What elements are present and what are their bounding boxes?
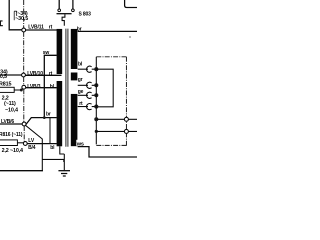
- svg-text:S 803: S 803: [79, 12, 92, 18]
- resistor R815 label: [0, 81, 11, 87]
- svg-text:R815: R815: [0, 81, 11, 87]
- transformer core: [66, 29, 68, 147]
- node LVB/10: [22, 71, 53, 77]
- wire left edge bottom: [0, 170, 43, 172]
- wire br tap from LVB/6: [26, 118, 57, 125]
- switch S803 actuator zigzag: [62, 14, 65, 26]
- connector circle 131: [124, 129, 128, 133]
- junction br/sw: [43, 116, 46, 119]
- component box corner top right: [125, 0, 137, 8]
- chain line right: [125, 57, 127, 146]
- svg-text:bl: bl: [50, 145, 55, 151]
- wire LVB/6 from edge: [0, 123, 22, 125]
- junction rt: [94, 105, 98, 109]
- svg-text:R816 (~11): R816 (~11): [0, 132, 23, 138]
- wire bl drop from br wire: [49, 118, 51, 144]
- svg-text:bl: bl: [78, 62, 83, 68]
- wire LVB/6 to ground drop: [26, 125, 43, 171]
- junction wire 131: [95, 130, 98, 133]
- transformer secondary winding middle: [71, 73, 78, 81]
- connector arc gr: [87, 82, 92, 88]
- node LVB/3: [22, 84, 55, 90]
- ground stem: [63, 154, 65, 170]
- label gr: [78, 77, 83, 83]
- secondary tap ge wire: [78, 94, 97, 96]
- switch S803 stem right: [72, 0, 74, 9]
- value label ~30,5 with bracket: [15, 16, 28, 22]
- svg-text:(~11): (~11): [4, 101, 16, 107]
- chain line bottom: [96, 144, 126, 146]
- transformer secondary winding top: [71, 29, 78, 69]
- value (~11) (R815): [4, 101, 16, 107]
- connector circle 119: [124, 117, 128, 121]
- value ~10,4 (R815): [5, 107, 18, 113]
- svg-text:2,2 ~10,4: 2,2 ~10,4: [2, 148, 23, 154]
- wire from top edge to LVB/11: [9, 0, 21, 30]
- secondary tap rt wire: [78, 106, 97, 108]
- wire R816 to node: [17, 142, 23, 144]
- connector arc rt: [87, 104, 92, 110]
- cut component at left edge: [0, 21, 3, 26]
- wire LVB/3 to primary tap: [26, 87, 57, 89]
- chain line top: [96, 56, 126, 58]
- label sw: [43, 50, 50, 56]
- switch S803 contact left: [58, 9, 61, 12]
- node LVB/4: [23, 138, 35, 151]
- value 2,2 (R815): [2, 96, 9, 102]
- switch S803 stem left: [58, 0, 60, 9]
- wire tap to connector circle 131: [96, 130, 137, 132]
- transformer primary winding upper: [57, 29, 63, 74]
- label ws: [76, 140, 86, 148]
- chain dot under br wire: [129, 36, 131, 37]
- resistor R815: [0, 87, 14, 92]
- svg-text:gr: gr: [78, 77, 83, 83]
- wire LVB/10 to primary tap: [0, 74, 62, 76]
- svg-text:LVB/3: LVB/3: [27, 84, 40, 90]
- left column label (~34): [0, 69, 8, 75]
- label br top: [77, 26, 82, 32]
- secondary bus: [95, 57, 97, 145]
- switch S803 lever: [57, 13, 72, 15]
- node LVB/6: [1, 119, 26, 126]
- stub primary bottom to ground: [60, 146, 65, 154]
- junction wire 119: [94, 117, 98, 121]
- resistor R816: [0, 140, 17, 146]
- transformer primary winding lower: [57, 81, 63, 146]
- wire junction to LVB/3: [21, 89, 23, 90]
- svg-text:ge: ge: [78, 89, 84, 95]
- label br middle: [46, 111, 51, 117]
- wire sw tap: [44, 55, 57, 117]
- secondary tap gr wire: [78, 84, 97, 86]
- label bl: [78, 62, 83, 68]
- label rt: [79, 101, 83, 107]
- connector arc ge: [87, 92, 92, 98]
- svg-text:~10,4: ~10,4: [5, 107, 18, 113]
- measurement bracket: [14, 11, 17, 20]
- connector arc bl: [87, 66, 92, 72]
- svg-text:rt: rt: [79, 101, 83, 107]
- svg-text:LV: LV: [28, 138, 35, 144]
- svg-text:bl: bl: [50, 84, 55, 90]
- wire R815 to node: [14, 89, 21, 91]
- svg-text:~30,5: ~30,5: [15, 16, 28, 22]
- svg-text:B/4: B/4: [28, 145, 36, 151]
- junction ge: [94, 93, 98, 97]
- wire br to right edge: [78, 30, 137, 32]
- switch S803 contact right: [72, 9, 75, 12]
- junction R815: [20, 89, 23, 92]
- label bl bottom: [50, 145, 55, 151]
- wire LVB/4 to transformer (bl): [27, 143, 57, 145]
- left column label ~30,5: [0, 74, 7, 80]
- wire ground elbow from LVB/6 drop: [42, 159, 64, 162]
- wire tap to connector circle 119: [96, 118, 137, 120]
- resistor R816 label: [0, 132, 23, 138]
- node LVB/11: [22, 25, 53, 32]
- label ge: [78, 89, 84, 95]
- svg-text:br: br: [46, 111, 51, 117]
- value 2,2 ~10,4 (R816): [2, 148, 23, 154]
- transformer secondary winding bottom: [71, 94, 78, 146]
- secondary tap bl wire: [78, 68, 97, 70]
- wire LVB/11 to primary top: [26, 29, 57, 31]
- junction bl: [94, 67, 98, 71]
- connector chain line (LVB bus): [23, 0, 26, 142]
- series link loop bl to rt: [96, 69, 113, 107]
- ground: [58, 171, 70, 176]
- wire ws to right edge: [78, 147, 137, 157]
- label S 803: [79, 12, 92, 18]
- junction gr: [94, 83, 98, 87]
- value label (~34): [16, 11, 28, 17]
